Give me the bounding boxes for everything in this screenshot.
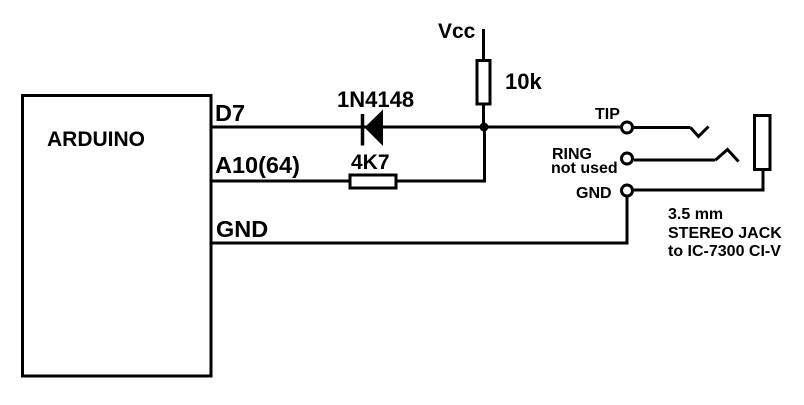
wire D7 net [211, 126, 620, 129]
wire TIP lead [634, 126, 691, 129]
node label RING [552, 147, 592, 163]
wire sleeve to GND node [632, 169, 763, 190]
note not used [551, 161, 618, 177]
value label 1N4148 [337, 89, 414, 111]
resistor R2 4K7 body [350, 175, 396, 188]
terminal GND circle [622, 185, 633, 196]
wire GND net [211, 242, 629, 245]
pin label GND [216, 218, 268, 242]
value label 10k [505, 71, 542, 93]
diode D1 cathode bar [361, 114, 365, 146]
label ARDUINO [47, 129, 145, 150]
terminal TIP circle [622, 122, 633, 133]
terminal RING circle [622, 153, 633, 164]
node label GND jack [576, 186, 612, 202]
wire A10 net [211, 127, 485, 181]
switch contact RING arm [716, 150, 739, 162]
wire GND drop [626, 196, 629, 242]
jack sleeve body [755, 116, 771, 170]
pin label A10(64) [215, 154, 300, 178]
junction node dot [480, 123, 489, 132]
diode D1 triangle [365, 110, 384, 147]
resistor R1 10k body [477, 61, 490, 105]
switch contact TIP arm [691, 127, 709, 137]
wire R1 to junction [482, 104, 485, 130]
pin label D7 [215, 102, 245, 126]
power label Vcc [438, 21, 475, 42]
note jack description [668, 206, 782, 262]
node label TIP [595, 107, 620, 123]
wire Vcc feed [482, 29, 485, 62]
arduino block U1 [23, 96, 212, 377]
value label 4K7 [351, 152, 390, 173]
wire RING lead [634, 159, 716, 162]
